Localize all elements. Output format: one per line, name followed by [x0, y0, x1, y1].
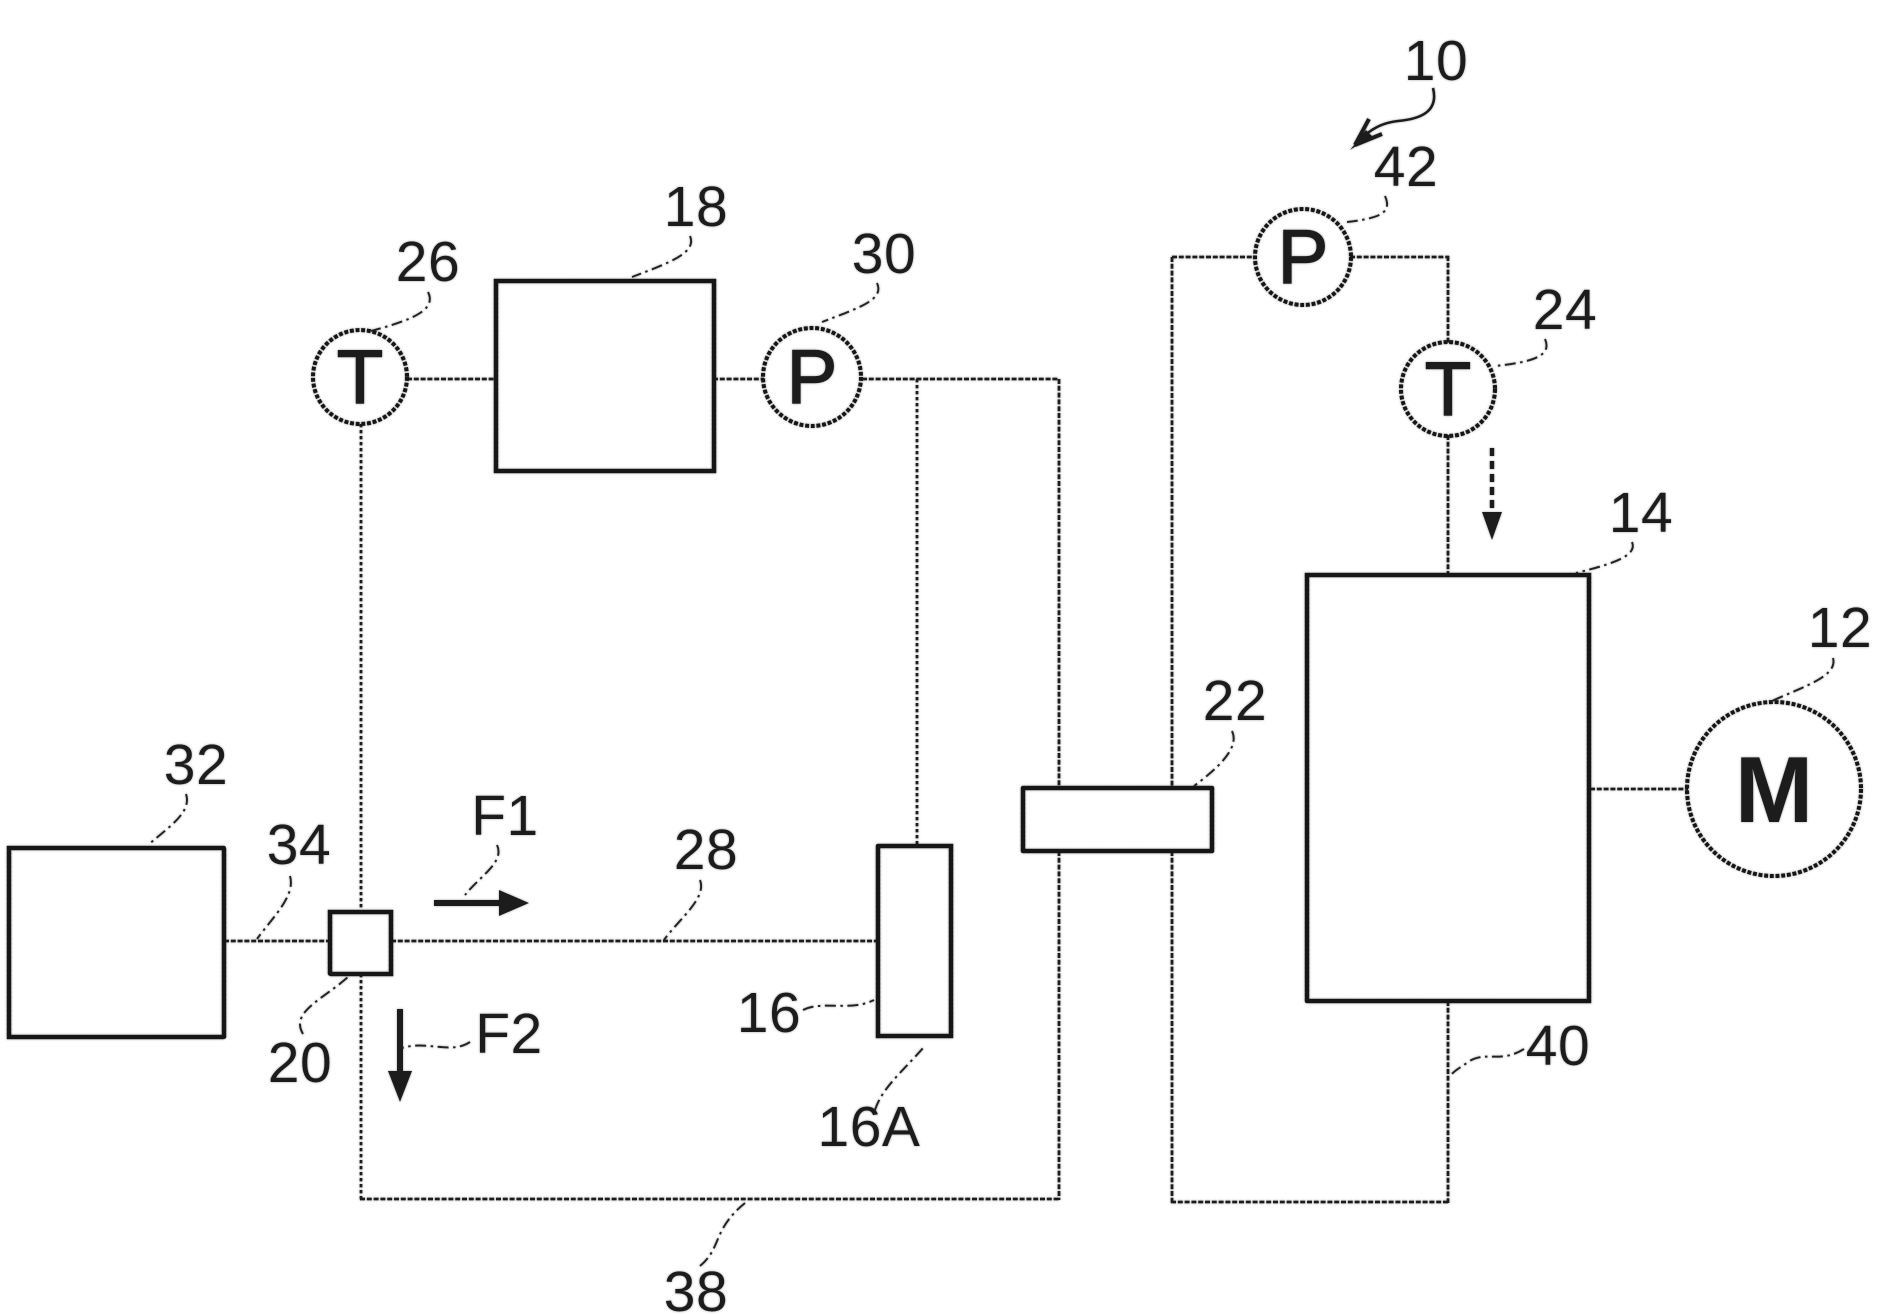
- svg-text:28: 28: [674, 818, 738, 882]
- wire T26 down to junction 20: [360, 424, 363, 912]
- svg-text:10: 10: [1404, 29, 1468, 93]
- sensor circle P 42: [1255, 209, 1351, 305]
- svg-text:42: 42: [1374, 135, 1438, 199]
- svg-text:F2: F2: [475, 1002, 543, 1066]
- wire box 14 to motor M12 dashed: [1590, 788, 1688, 791]
- wire junction 20 down to bottom bus: [360, 974, 363, 1200]
- wire right loop left vertical lower: [1171, 851, 1174, 1203]
- box 14: [1307, 575, 1589, 1001]
- svg-text:30: 30: [852, 222, 916, 286]
- wire box 18 to P30: [713, 378, 764, 381]
- leader 40: [1451, 1049, 1524, 1075]
- leader 32: [148, 794, 187, 845]
- wire vertical to heat exchanger 22 top: [1058, 379, 1061, 788]
- junction box 20: [330, 912, 391, 974]
- svg-text:20: 20: [268, 1031, 332, 1095]
- wire corner down to T24: [1447, 256, 1450, 343]
- svg-text:34: 34: [267, 813, 331, 877]
- leader 42: [1347, 196, 1387, 222]
- wire branch down to valve 16: [916, 379, 919, 846]
- svg-text:P: P: [1278, 215, 1329, 300]
- wire right loop bottom bus: [1171, 1201, 1449, 1204]
- motor circle M 12: [1687, 702, 1861, 876]
- svg-text:16: 16: [737, 981, 801, 1045]
- leader 28: [664, 880, 701, 940]
- wire P30 to corner node: [862, 378, 1059, 381]
- leader 26: [371, 292, 430, 331]
- svg-text:18: 18: [664, 175, 728, 239]
- leader 24: [1495, 339, 1547, 366]
- sensor circle P 30: [763, 328, 861, 426]
- svg-text:40: 40: [1526, 1014, 1590, 1078]
- valve box 16: [878, 846, 951, 1036]
- svg-text:24: 24: [1533, 278, 1597, 342]
- leader F1: [465, 845, 499, 895]
- leader 22: [1194, 731, 1234, 786]
- leader 16: [803, 1000, 874, 1010]
- wire P42 to corner: [1350, 256, 1449, 259]
- wire bottom bus 38: [360, 1198, 1060, 1201]
- wire box 32 to junction 20: [224, 940, 330, 943]
- leader F2: [402, 1042, 470, 1048]
- svg-text:22: 22: [1203, 669, 1267, 733]
- heat exchanger box 22: [1023, 788, 1212, 851]
- svg-text:16A: 16A: [818, 1095, 921, 1159]
- svg-text:T: T: [1425, 347, 1471, 432]
- flow arrow F2: [388, 1009, 412, 1102]
- svg-text:26: 26: [396, 230, 460, 294]
- svg-text:12: 12: [1808, 596, 1872, 660]
- wire top of right loop y257 left part: [1172, 256, 1256, 259]
- leader 30: [822, 283, 878, 322]
- svg-text:P: P: [787, 335, 838, 420]
- leader 34: [257, 876, 291, 939]
- wire box 14 bottom to bottom bus 40: [1447, 1001, 1450, 1203]
- box 18: [496, 281, 714, 471]
- svg-text:14: 14: [1609, 481, 1673, 545]
- sensor circle T 24: [1401, 342, 1495, 436]
- box 32: [9, 848, 224, 1037]
- flow arrow below T24: [1482, 448, 1502, 540]
- leader 20: [300, 977, 348, 1034]
- svg-text:38: 38: [664, 1260, 728, 1315]
- wire 22 bottom to bottom bus 38: [1058, 851, 1061, 1200]
- leader 16A: [875, 1047, 924, 1110]
- leader 38: [700, 1203, 745, 1266]
- wire 28 junction 20 to valve 16: [391, 940, 878, 943]
- flow arrow F1: [434, 890, 529, 916]
- leader 14: [1576, 542, 1633, 573]
- sensor circle T 26: [313, 330, 407, 424]
- reference arrow 10: [1350, 88, 1434, 150]
- leader 18: [632, 236, 691, 277]
- svg-text:M: M: [1735, 737, 1813, 842]
- svg-text:32: 32: [164, 733, 228, 797]
- leader 12: [1772, 658, 1834, 701]
- svg-text:F1: F1: [471, 784, 539, 848]
- wire right loop left vertical: [1171, 257, 1174, 788]
- svg-text:T: T: [337, 335, 383, 420]
- wire T24 to box 14 top: [1447, 435, 1450, 575]
- wire T26 to box 18: [407, 378, 495, 381]
